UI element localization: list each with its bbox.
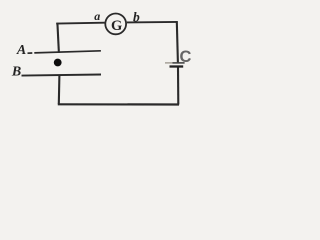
node A contact line — [28, 52, 33, 54]
wire left vertical lower — [58, 75, 61, 104]
svg-text:b: b — [133, 9, 140, 24]
battery C bottom plate — [170, 65, 184, 67]
svg-text:A: A — [16, 43, 26, 58]
junction contact dot — [54, 59, 62, 67]
wire bottom horizontal — [58, 103, 179, 105]
wire top-right horizontal — [127, 21, 178, 24]
wire right vertical upper — [177, 21, 178, 62]
svg-text:C: C — [180, 48, 192, 66]
node B contact line — [22, 75, 102, 76]
wire top-left horizontal — [56, 22, 104, 25]
wire left vertical upper — [57, 23, 59, 53]
svg-text:G: G — [111, 18, 122, 34]
svg-text:a: a — [94, 9, 100, 23]
svg-text:B: B — [11, 64, 21, 79]
battery C top plate — [165, 62, 173, 64]
galvanometer U1 circle — [105, 14, 126, 35]
wire right vertical lower — [177, 67, 179, 104]
